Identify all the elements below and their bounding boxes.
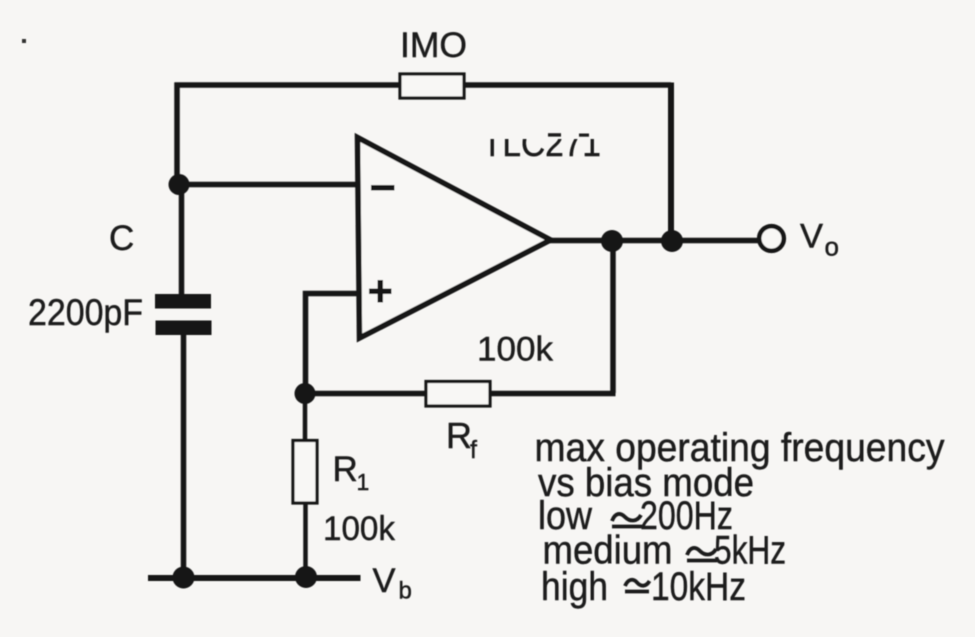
wire: top feedback horizontal — [175, 82, 672, 88]
svg-text:2200pF: 2200pF — [28, 292, 143, 333]
wire: right rail (top wire down to output node) — [668, 83, 674, 242]
svg-text:b: b — [399, 578, 412, 605]
wire: bottom rail Vb — [148, 575, 361, 581]
capacitor C plates — [155, 294, 212, 335]
terminal Vo open circle — [759, 226, 784, 251]
svg-text:R: R — [446, 415, 472, 456]
wire: left rail upper (top wire to inverting junction) — [174, 83, 180, 187]
wire: R1 to bottom rail — [303, 503, 308, 578]
svg-text:C: C — [109, 219, 134, 258]
wire: Rf row horizontal — [305, 391, 616, 397]
node: Rf / R1 / non-inverting junction — [295, 383, 316, 404]
op-amp minus input mark — [371, 185, 395, 191]
label TLC271 (top of glyphs faded in scan) — [482, 123, 601, 164]
svg-text:10kHz: 10kHz — [651, 565, 746, 609]
speck — [22, 39, 26, 43]
svg-text:1: 1 — [357, 469, 370, 495]
svg-text:high: high — [541, 565, 608, 609]
node: output / Rf branch — [601, 230, 623, 252]
node: left rail / bottom rail — [173, 567, 195, 589]
node: output / feedback rail — [661, 230, 683, 252]
wire: inverting input (junction to op-amp) — [179, 182, 360, 188]
approx-equal symbol (low) — [612, 514, 641, 521]
node: R1 / bottom rail — [295, 566, 317, 588]
resistor R1 box (vertical) — [293, 441, 317, 504]
svg-text:100k: 100k — [477, 331, 554, 369]
resistor Rf box — [426, 382, 490, 407]
op-amp plus input mark — [369, 289, 392, 295]
svg-text:V: V — [373, 562, 396, 600]
svg-text:V: V — [800, 218, 823, 256]
annotation text block: max operating frequency table — [535, 426, 945, 609]
resistor IMO (1M) box — [400, 74, 464, 98]
wire: output node down to Rf row — [610, 241, 616, 393]
svg-text:IMO: IMO — [400, 25, 467, 65]
op-amp U1 TLC271 triangle — [358, 138, 551, 339]
svg-text:R: R — [333, 450, 358, 489]
wire: left rail (junction down to cap top plate) — [179, 182, 185, 296]
wire: node down to R1 — [303, 393, 308, 441]
node: junction left rail / inverting input — [169, 174, 190, 195]
wire: non-inverting input (from R1 top node up and right to op-amp) — [306, 294, 361, 394]
approx-equal symbol (medium) — [687, 548, 716, 555]
approx-equal symbol (high) — [625, 580, 650, 586]
svg-text:f: f — [470, 436, 477, 464]
svg-text:100k: 100k — [323, 510, 396, 548]
wire: op-amp output to terminal — [548, 238, 759, 244]
svg-text:o: o — [825, 232, 839, 262]
wire: left rail lower (cap bottom plate to bottom rail) — [181, 333, 187, 580]
